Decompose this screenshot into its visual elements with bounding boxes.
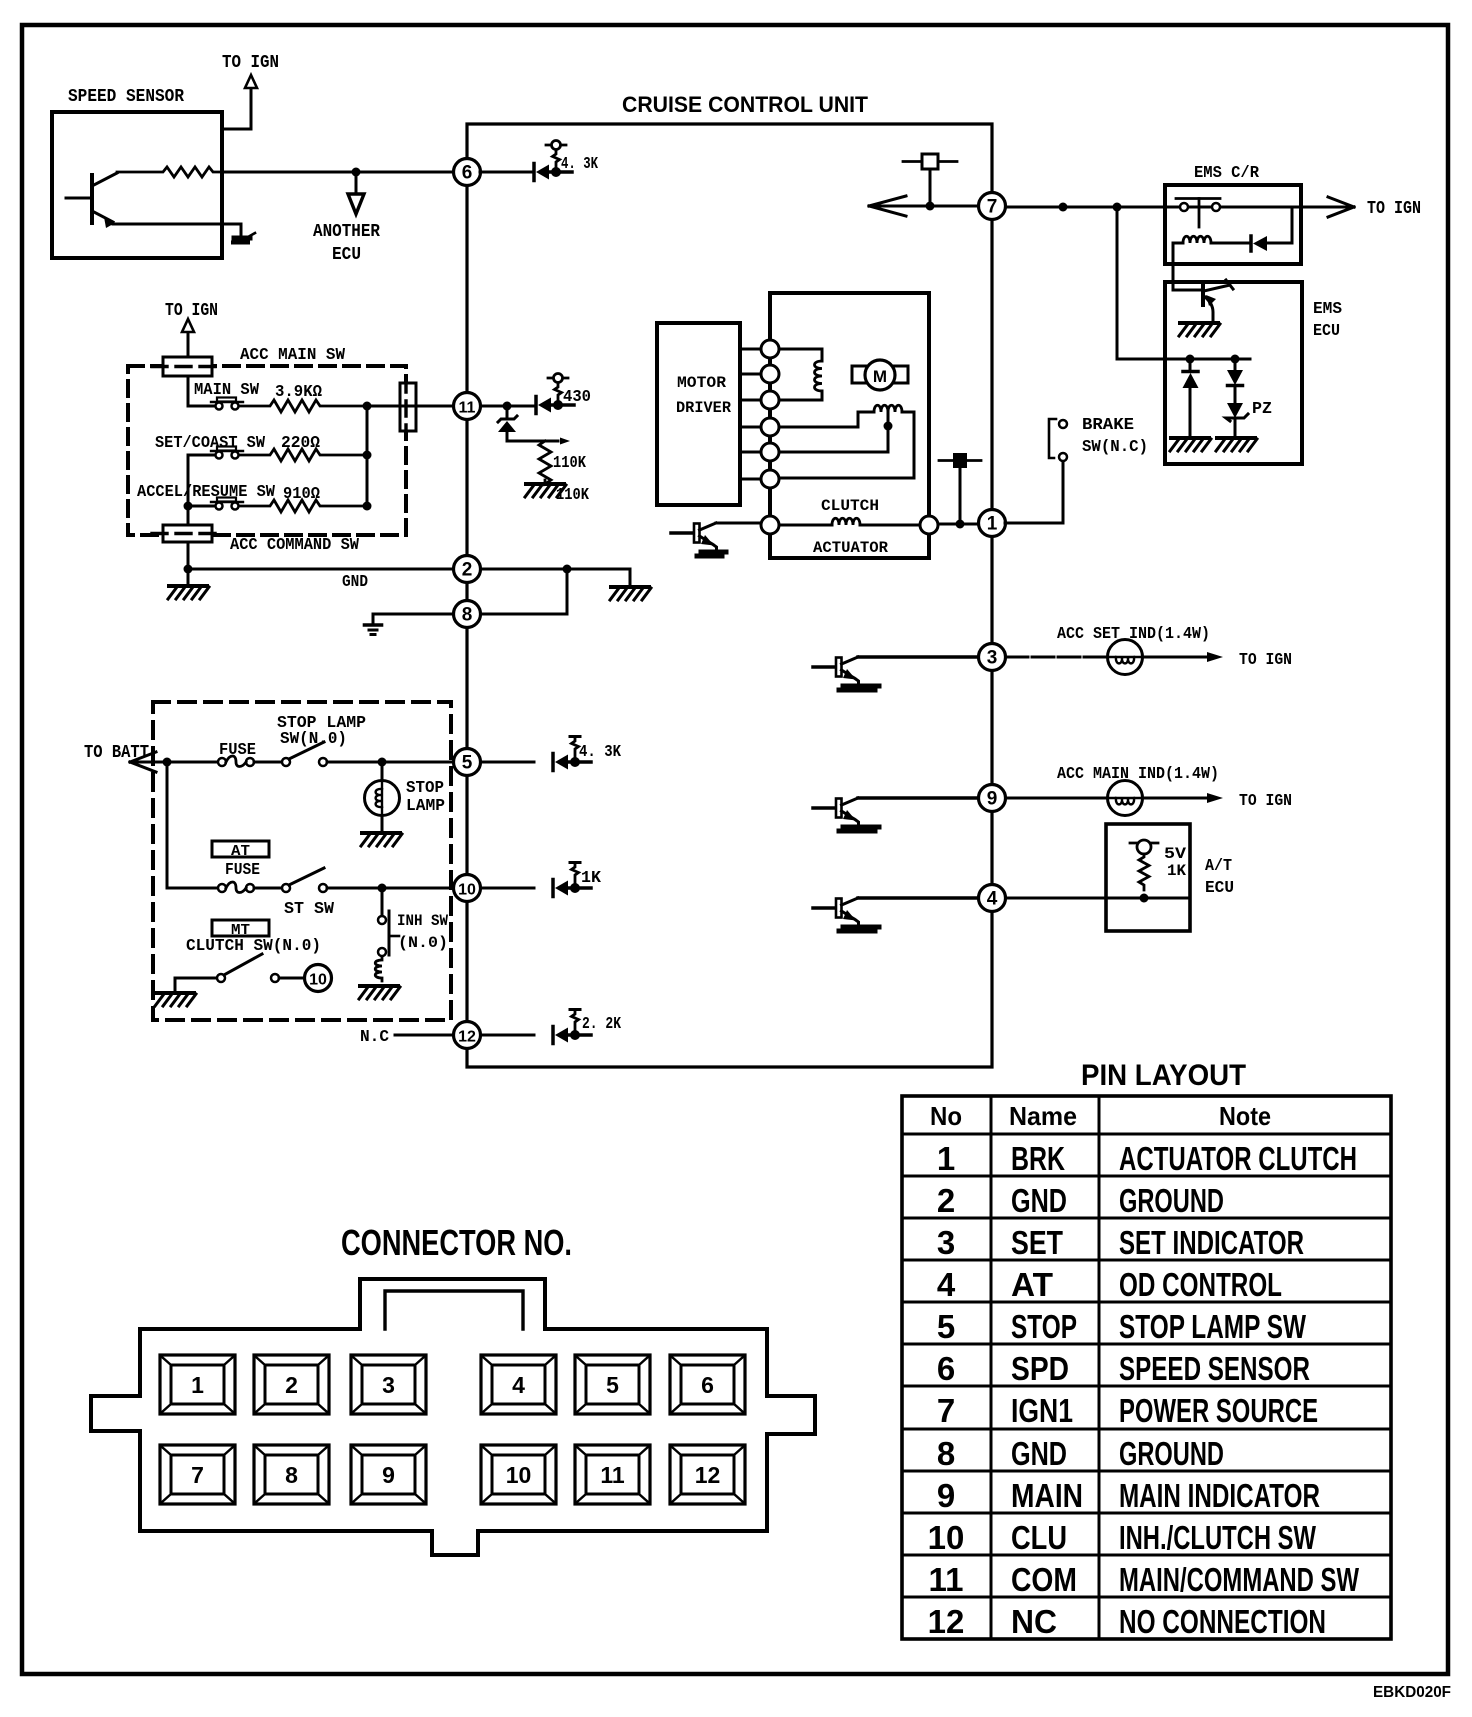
arrow TO IGN (set ind) xyxy=(1143,656,1208,659)
svg-text:TO IGN: TO IGN xyxy=(1367,199,1421,219)
arrow TO BATT xyxy=(130,752,156,772)
svg-text:AT: AT xyxy=(1011,1266,1053,1303)
drive transistor (node 4) xyxy=(813,906,836,910)
svg-text:STOP: STOP xyxy=(406,779,444,798)
connector top tab inner xyxy=(385,1291,523,1329)
svg-text:EMS: EMS xyxy=(1313,300,1342,319)
node 3 xyxy=(979,644,1006,671)
svg-text:BRK: BRK xyxy=(1011,1140,1065,1177)
svg-text:TO IGN: TO IGN xyxy=(1239,792,1292,811)
svg-text:A/T: A/T xyxy=(1205,857,1232,876)
svg-text:2: 2 xyxy=(462,560,473,581)
wire speed sensor to node 6 xyxy=(222,171,453,174)
switch ACCEL/RESUME xyxy=(216,503,223,510)
ground (EMS transistor) xyxy=(1180,321,1218,325)
svg-text:1K: 1K xyxy=(581,869,602,888)
clutch actuator coil (pin 7) xyxy=(779,524,832,527)
svg-text:M: M xyxy=(873,367,887,386)
connector bar (lower) xyxy=(163,525,212,542)
svg-text:ACC MAIN SW: ACC MAIN SW xyxy=(240,346,346,365)
connector pin 12 xyxy=(670,1445,745,1504)
svg-text:5: 5 xyxy=(937,1308,955,1345)
switch MAIN SW xyxy=(216,403,223,410)
svg-text:SPEED SENSOR: SPEED SENSOR xyxy=(68,87,184,107)
arrow TO IGN (acc) xyxy=(182,319,194,332)
stop lamp xyxy=(381,762,384,781)
svg-text:PIN LAYOUT: PIN LAYOUT xyxy=(1081,1059,1246,1092)
svg-text:EMS C/R: EMS C/R xyxy=(1194,164,1260,183)
wire node 6 to diode xyxy=(480,171,534,174)
svg-text:SET INDICATOR: SET INDICATOR xyxy=(1119,1224,1304,1261)
motor relay coil (pins 1-3) xyxy=(779,349,822,361)
svg-text:(N.0): (N.0) xyxy=(398,934,448,952)
diode + 4.3K (node 5) xyxy=(481,761,534,764)
svg-text:5V: 5V xyxy=(1164,845,1186,863)
svg-text:9: 9 xyxy=(937,1477,955,1514)
node 10 xyxy=(454,875,481,902)
wire node 11 to diode xyxy=(481,405,536,408)
svg-text:7: 7 xyxy=(937,1392,955,1429)
svg-text:ST SW: ST SW xyxy=(284,900,335,919)
svg-text:CLU: CLU xyxy=(1011,1519,1067,1556)
wire node 8 right up to node2 wire xyxy=(481,569,567,614)
svg-text:GND: GND xyxy=(1011,1182,1067,1219)
svg-text:1: 1 xyxy=(987,514,998,535)
svg-text:7: 7 xyxy=(987,197,998,218)
motor driver box xyxy=(657,323,740,505)
svg-text:N.C: N.C xyxy=(360,1028,389,1047)
svg-text:110K: 110K xyxy=(553,454,587,473)
ground (110K) xyxy=(526,482,564,486)
arrow TO IGN (top) xyxy=(245,75,257,88)
svg-text:POWER SOURCE: POWER SOURCE xyxy=(1119,1392,1318,1429)
ground (node 2) xyxy=(611,585,649,589)
svg-text:MOTOR: MOTOR xyxy=(677,374,726,392)
connector bar (upper) xyxy=(163,357,212,376)
resistor (speed sensor internal) xyxy=(117,167,222,177)
svg-text:12: 12 xyxy=(695,1462,721,1488)
coil (INH SW) xyxy=(375,957,382,981)
svg-text:4. 3K: 4. 3K xyxy=(579,743,622,762)
svg-text:11: 11 xyxy=(459,400,476,417)
diode down + zener PZ (EMS) xyxy=(1234,359,1237,370)
switch ST SW xyxy=(282,884,290,892)
svg-text:ACC COMMAND SW: ACC COMMAND SW xyxy=(230,536,360,555)
node 8 xyxy=(454,601,481,628)
svg-text:3: 3 xyxy=(382,1372,395,1398)
junction node 11 branch xyxy=(363,402,372,411)
resistor 220 xyxy=(239,449,367,461)
svg-text:GROUND: GROUND xyxy=(1119,1435,1224,1472)
EMS C/R box xyxy=(1165,185,1301,264)
svg-text:Note: Note xyxy=(1219,1101,1271,1131)
5V supply terminal xyxy=(1130,842,1158,845)
vertical feed wire TO BATT branch xyxy=(166,762,169,888)
fuse (stop lamp) xyxy=(218,758,226,766)
svg-text:CONNECTOR NO.: CONNECTOR NO. xyxy=(341,1222,572,1263)
arrow TO IGN (main ind) xyxy=(1143,797,1208,800)
diode up (EMS) xyxy=(1189,359,1192,371)
wire switch to node 5 xyxy=(327,761,453,764)
svg-text:GND: GND xyxy=(1011,1435,1067,1472)
wire connector to MAIN SW xyxy=(188,376,215,406)
node 2 xyxy=(454,556,481,583)
junction (another ECU tap) xyxy=(352,168,361,177)
drive transistor (node 9) xyxy=(813,806,836,810)
svg-text:11: 11 xyxy=(600,1462,625,1488)
switch SET/COAST xyxy=(216,452,223,459)
resistor 910 xyxy=(239,500,367,512)
svg-text:9: 9 xyxy=(382,1462,395,1488)
wire to fuse xyxy=(167,887,218,890)
connector pin 5 xyxy=(575,1355,650,1414)
svg-text:ACC MAIN IND(1.4W): ACC MAIN IND(1.4W) xyxy=(1057,765,1219,784)
lamp ACC SET IND xyxy=(1108,640,1143,675)
wire EMS C/R coil to EMS ECU xyxy=(1173,243,1200,290)
svg-text:5: 5 xyxy=(462,753,473,774)
svg-text:4: 4 xyxy=(937,1266,956,1303)
pin layout table grid xyxy=(902,1096,1391,1639)
svg-text:CRUISE CONTROL UNIT: CRUISE CONTROL UNIT xyxy=(622,92,869,117)
switch STOP LAMP SW xyxy=(282,758,290,766)
relay contacts xyxy=(1180,203,1188,211)
svg-text:ACTUATOR: ACTUATOR xyxy=(813,539,888,557)
fuse (AT/ST) xyxy=(218,884,226,892)
svg-text:SPEED SENSOR: SPEED SENSOR xyxy=(1119,1350,1310,1387)
svg-text:ANOTHER: ANOTHER xyxy=(313,222,380,242)
ground (stop lamp) xyxy=(362,831,400,835)
node 5 xyxy=(454,749,481,776)
svg-text:GND: GND xyxy=(342,573,368,592)
svg-text:4. 3K: 4. 3K xyxy=(561,155,599,174)
svg-text:TO IGN: TO IGN xyxy=(222,53,279,73)
svg-text:9: 9 xyxy=(987,789,998,810)
wire node 1 to brake switch xyxy=(1005,461,1063,523)
svg-text:3: 3 xyxy=(937,1224,955,1261)
connector pin 9 xyxy=(351,1445,426,1504)
svg-text:Name: Name xyxy=(1009,1101,1077,1131)
svg-text:SW(N.C): SW(N.C) xyxy=(1082,438,1148,457)
ground (INH SW) xyxy=(360,984,398,988)
svg-text:ACCEL/RESUME SW: ACCEL/RESUME SW xyxy=(137,483,276,502)
node 1 xyxy=(979,510,1006,537)
svg-text:SET: SET xyxy=(1011,1224,1063,1261)
speed sensor box xyxy=(52,112,222,258)
connector square symbol (node 1 branch) xyxy=(959,468,962,524)
svg-text:OD CONTROL: OD CONTROL xyxy=(1119,1266,1282,1303)
connector pin 7 xyxy=(160,1445,235,1504)
wire node 7 to EMS / TO IGN xyxy=(1006,206,1330,209)
svg-text:6: 6 xyxy=(701,1372,714,1398)
clutch switch + ground xyxy=(156,991,194,995)
svg-text:ECU: ECU xyxy=(1313,322,1340,341)
resistor 3.9K xyxy=(239,400,367,412)
svg-text:TO IGN: TO IGN xyxy=(1239,651,1292,670)
MT label box xyxy=(212,920,269,936)
connector square symbol (node 7 branch) xyxy=(929,169,932,206)
svg-text:PZ: PZ xyxy=(1252,400,1272,419)
wire node 8 left to earth xyxy=(373,614,453,624)
svg-text:ECU: ECU xyxy=(332,245,361,265)
EMS ECU box xyxy=(1165,282,1302,464)
earth (node 8) xyxy=(365,623,382,627)
svg-text:AT: AT xyxy=(231,843,250,860)
svg-text:10: 10 xyxy=(928,1519,965,1556)
wire speed sensor to TO IGN xyxy=(222,89,251,129)
svg-text:INH./CLUTCH SW: INH./CLUTCH SW xyxy=(1119,1519,1317,1556)
svg-text:7: 7 xyxy=(191,1462,204,1488)
ground (acc command sw) xyxy=(169,584,207,588)
svg-text:ECU: ECU xyxy=(1205,879,1234,898)
svg-text:4: 4 xyxy=(987,889,998,910)
svg-text:5: 5 xyxy=(606,1372,619,1398)
diode + 1K (node 10) xyxy=(481,887,534,890)
svg-text:CLUTCH: CLUTCH xyxy=(821,497,879,515)
svg-text:2. 2K: 2. 2K xyxy=(582,1015,622,1034)
svg-text:10: 10 xyxy=(506,1462,532,1488)
connector pin 3 xyxy=(351,1355,426,1414)
svg-text:4: 4 xyxy=(512,1372,525,1398)
svg-text:430: 430 xyxy=(563,388,591,407)
connector pin 11 xyxy=(575,1445,650,1504)
wire node 4 into A/T ECU xyxy=(1006,897,1190,900)
svg-text:6: 6 xyxy=(462,163,473,184)
node 9 xyxy=(979,785,1006,812)
connector pin 2 xyxy=(254,1355,329,1414)
dashed box ACC MAIN SW xyxy=(128,366,406,535)
wire junction to node 11 xyxy=(367,405,453,408)
svg-text:ACTUATOR CLUTCH: ACTUATOR CLUTCH xyxy=(1119,1140,1357,1177)
svg-text:STOP LAMP SW: STOP LAMP SW xyxy=(1119,1308,1307,1345)
connector pin 4 xyxy=(481,1355,556,1414)
drive transistor (node 3) xyxy=(813,665,836,669)
drive transistor (clutch, pin 7) xyxy=(671,531,694,535)
svg-text:10: 10 xyxy=(309,972,327,989)
node 6 xyxy=(454,159,481,186)
wire node 3 to lamp xyxy=(1006,656,1107,659)
node 7 xyxy=(979,193,1006,220)
zener diode (node 11) xyxy=(506,406,509,419)
brake switch SW(N.C) xyxy=(1059,420,1067,428)
svg-text:NO CONNECTION: NO CONNECTION xyxy=(1119,1603,1326,1640)
svg-text:MAIN/COMMAND SW: MAIN/COMMAND SW xyxy=(1119,1561,1360,1598)
svg-text:No: No xyxy=(930,1101,962,1131)
diode + 4.3K pullup (node 6) xyxy=(532,164,536,181)
A/T ECU box xyxy=(1106,824,1190,931)
connector pin 6 xyxy=(670,1355,745,1414)
svg-text:MAIN: MAIN xyxy=(1011,1477,1083,1514)
wire actuator to node 1 xyxy=(938,523,979,526)
circled 10 reference xyxy=(305,965,332,992)
node 4 xyxy=(979,885,1006,912)
arrow to ANOTHER ECU xyxy=(355,177,358,194)
svg-text:EBKD020F: EBKD020F xyxy=(1373,1684,1451,1701)
diode + 430 pullup (node 11) xyxy=(534,397,538,414)
ground (EMS zener) xyxy=(1217,436,1255,440)
svg-text:12: 12 xyxy=(928,1603,965,1640)
svg-text:110K: 110K xyxy=(556,486,590,505)
wires left side of command switches xyxy=(188,455,215,525)
svg-text:11: 11 xyxy=(929,1561,964,1598)
svg-text:STOP: STOP xyxy=(1011,1308,1077,1345)
svg-text:LAMP: LAMP xyxy=(406,797,445,816)
clutch actuator box xyxy=(770,293,929,558)
svg-text:8: 8 xyxy=(285,1462,298,1488)
svg-text:8: 8 xyxy=(937,1435,955,1472)
svg-text:2: 2 xyxy=(285,1372,298,1398)
node 11 xyxy=(454,393,481,420)
svg-text:CLUTCH SW(N.0): CLUTCH SW(N.0) xyxy=(186,937,321,956)
svg-text:NC: NC xyxy=(1011,1603,1057,1640)
svg-text:TO BATT: TO BATT xyxy=(84,743,149,763)
connector pin 8 xyxy=(254,1445,329,1504)
lamp ACC MAIN IND xyxy=(1108,781,1143,816)
svg-text:6: 6 xyxy=(937,1350,955,1387)
svg-text:3: 3 xyxy=(987,648,998,669)
svg-text:TO IGN: TO IGN xyxy=(165,301,218,321)
wire to EMS diodes xyxy=(1117,207,1250,359)
svg-text:SPD: SPD xyxy=(1011,1350,1069,1387)
relay diode xyxy=(1249,236,1253,251)
label INH SW (N.0) xyxy=(390,935,399,938)
arrow (internal, node 7) xyxy=(869,196,906,216)
svg-text:COM: COM xyxy=(1011,1561,1077,1598)
wire ACC COMMAND SW to ground / node 2 xyxy=(188,542,453,569)
svg-text:MAIN INDICATOR: MAIN INDICATOR xyxy=(1119,1477,1320,1514)
motor M xyxy=(852,366,867,383)
svg-text:2: 2 xyxy=(937,1182,955,1219)
svg-text:BRAKE: BRAKE xyxy=(1082,416,1134,435)
svg-text:GROUND: GROUND xyxy=(1119,1182,1224,1219)
svg-text:1: 1 xyxy=(937,1140,955,1177)
svg-text:FUSE: FUSE xyxy=(225,861,260,880)
actuator pin circles xyxy=(761,340,779,358)
ground (EMS diode left) xyxy=(1171,436,1209,440)
transistor Q (speed sensor) xyxy=(90,175,94,223)
resistor 1K (A/T) xyxy=(1139,854,1149,890)
svg-text:INH SW: INH SW xyxy=(397,912,448,930)
wire node 2 to ground right xyxy=(481,569,630,586)
dashed box stop/clutch switches xyxy=(153,702,451,1020)
transistor (EMS ECU) xyxy=(1201,284,1205,305)
connector pin 10 xyxy=(481,1445,556,1504)
cruise control unit box xyxy=(467,124,992,1067)
svg-text:IGN1: IGN1 xyxy=(1011,1392,1073,1429)
svg-text:10: 10 xyxy=(458,882,476,899)
AT fuse label box xyxy=(212,841,269,857)
svg-text:12: 12 xyxy=(458,1029,476,1046)
connector body outline xyxy=(91,1279,815,1555)
resistor 110K xyxy=(539,441,551,484)
connector pass-through (vertical) xyxy=(400,383,416,431)
wire to node 10 xyxy=(327,887,453,890)
diode + 2.2K (node 12) xyxy=(481,1034,534,1037)
connector pin 1 xyxy=(160,1355,235,1414)
svg-text:1: 1 xyxy=(191,1372,204,1398)
motor driver leads xyxy=(740,349,761,479)
wire node 9 to lamp xyxy=(1006,797,1107,800)
clutch relay coil (pins 4-5-6, center tap) xyxy=(779,412,874,427)
svg-text:DRIVER: DRIVER xyxy=(676,399,731,417)
svg-text:1K: 1K xyxy=(1167,862,1186,880)
arrow TO IGN (EMS) xyxy=(1328,197,1354,217)
wire emitter to chassis ground xyxy=(113,224,241,234)
svg-text:8: 8 xyxy=(462,605,473,626)
INH SW branch xyxy=(381,888,384,915)
relay coil xyxy=(1173,242,1183,245)
wire to node 5 xyxy=(130,761,218,764)
